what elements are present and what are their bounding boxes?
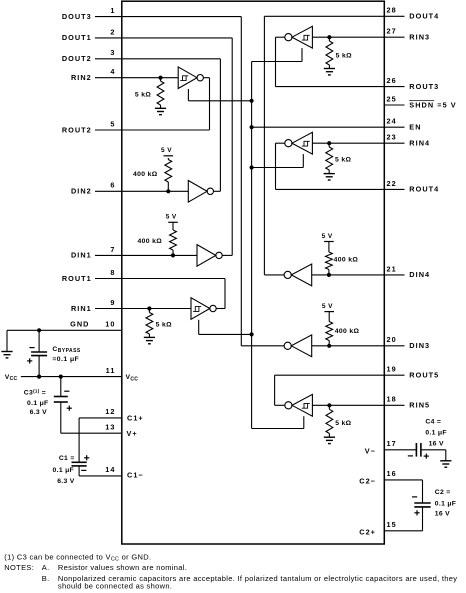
junction GND/Cbypass — [37, 328, 41, 332]
svg-text:SHDN =5 V: SHDN =5 V — [409, 100, 456, 109]
pin 3 DOUT2 — [62, 48, 221, 63]
junction RIN2/5k — [158, 76, 162, 80]
svg-text:DOUT2: DOUT2 — [62, 54, 92, 63]
wire RIN5 enable — [252, 416, 304, 428]
pin 2 DOUT1 — [62, 27, 232, 42]
pin 4 RIN2 — [71, 67, 178, 82]
junction RIN1/5k — [147, 306, 151, 310]
wire DOUT1 bus — [222, 38, 232, 256]
svg-text:0.1 μF: 0.1 μF — [435, 500, 456, 507]
svg-text:28: 28 — [387, 6, 397, 15]
pin 11 VCC — [5, 366, 139, 383]
svg-text:ROUT1: ROUT1 — [62, 274, 92, 283]
op-amp DIN2 driver (inverter) — [188, 181, 207, 203]
wire GND down — [6, 330, 8, 351]
svg-text:DOUT1: DOUT1 — [62, 33, 92, 42]
svg-text:9: 9 — [110, 298, 115, 307]
svg-text:25: 25 — [387, 94, 397, 103]
svg-text:RIN2: RIN2 — [71, 73, 92, 82]
pin 24 EN — [252, 117, 422, 132]
capacitor C4 — [416, 443, 445, 461]
svg-text:Resistor values shown are nomi: Resistor values shown are nominal. — [58, 563, 187, 572]
svg-text:B.: B. — [42, 574, 50, 583]
wire EN bus — [251, 62, 253, 429]
svg-text:=0.1 μF: =0.1 μF — [52, 356, 79, 363]
svg-text:(1) C3 can be connected to VCC: (1) C3 can be connected to VCC or GND. — [4, 553, 151, 563]
junction RIN5/5k — [327, 403, 331, 407]
svg-text:5 V: 5 V — [322, 233, 333, 240]
pin 21 DIN4 — [312, 264, 430, 279]
junction EN/RIN1 — [250, 332, 254, 336]
wire RIN1 enable — [199, 320, 252, 335]
svg-text:C1−: C1− — [127, 470, 144, 479]
svg-text:22: 22 — [387, 179, 397, 188]
svg-text:23: 23 — [387, 133, 397, 142]
svg-text:5 kΩ: 5 kΩ — [135, 92, 151, 99]
svg-text:16: 16 — [387, 469, 397, 478]
capacitor C1 — [72, 418, 87, 476]
svg-text:V+: V+ — [127, 429, 138, 438]
wire ROUT2 loop — [203, 78, 209, 130]
minus C3 — [64, 390, 69, 392]
svg-text:400 kΩ: 400 kΩ — [335, 328, 360, 335]
svg-text:C2+: C2+ — [359, 527, 376, 536]
svg-text:8: 8 — [110, 268, 115, 277]
junction EN/pin24 — [250, 125, 254, 129]
pin 6 DIN2 — [71, 181, 188, 196]
pin 20 DIN3 — [312, 335, 430, 350]
resistor R 5k (RIN4) — [326, 143, 333, 173]
note B — [42, 574, 458, 583]
pin 14 C1- — [79, 465, 144, 479]
resistor R 400k (DIN1) — [170, 222, 177, 255]
junction Vcc/Cbypass — [37, 375, 41, 379]
label C2 — [435, 489, 456, 518]
svg-text:400 kΩ: 400 kΩ — [133, 171, 158, 178]
svg-text:27: 27 — [387, 27, 397, 36]
svg-text:C2 =: C2 = — [435, 489, 451, 496]
svg-text:0.1 μF: 0.1 μF — [425, 430, 446, 437]
pin 19 ROUT5 — [275, 365, 440, 380]
wire DOUT2 bus — [214, 59, 221, 192]
pin 22 ROUT4 — [276, 179, 440, 194]
svg-text:GND: GND — [70, 320, 89, 329]
minus C2 — [412, 496, 417, 498]
wire RIN4 enable — [252, 154, 304, 167]
svg-text:ROUT2: ROUT2 — [62, 125, 92, 134]
op-amp RIN2 receiver (schmitt inverter) — [178, 67, 197, 89]
svg-text:DOUT3: DOUT3 — [62, 12, 92, 21]
svg-text:C1+: C1+ — [127, 414, 144, 423]
svg-text:24: 24 — [387, 117, 397, 126]
capacitor Cbypass — [31, 330, 47, 376]
svg-text:DOUT4: DOUT4 — [409, 12, 439, 21]
svg-text:ROUT5: ROUT5 — [409, 371, 439, 380]
pin 28 DOUT4 — [264, 6, 439, 21]
junction DIN2/400k — [166, 189, 170, 193]
svg-text:12: 12 — [105, 407, 115, 416]
minus Cbypass — [29, 347, 34, 349]
pin 10 GND — [7, 320, 122, 331]
svg-text:V−: V− — [365, 446, 376, 455]
junction DIN4/400k — [327, 273, 331, 277]
svg-text:5 V: 5 V — [322, 303, 333, 310]
op-amp DIN4 driver (inverter) — [291, 264, 311, 286]
svg-text:5 kΩ: 5 kΩ — [156, 321, 172, 328]
svg-text:15: 15 — [387, 520, 397, 529]
pin 17 V- — [365, 439, 417, 455]
capacitor C2 — [414, 480, 430, 531]
wire ROUT1 loop — [216, 279, 225, 309]
junction Vcc/C3 — [59, 375, 63, 379]
svg-text:ROUT3: ROUT3 — [409, 82, 439, 91]
pin 8 ROUT1 — [62, 268, 225, 283]
junction RIN4/5k — [327, 141, 331, 145]
ground RIN5 5k — [324, 436, 335, 438]
svg-text:ROUT4: ROUT4 — [409, 185, 439, 194]
svg-text:DIN3: DIN3 — [409, 341, 430, 350]
wire ROUT3 loop — [276, 37, 285, 86]
svg-text:VCC: VCC — [126, 374, 139, 382]
svg-text:2: 2 — [110, 27, 115, 36]
svg-text:5 V: 5 V — [166, 214, 177, 221]
svg-text:5 kΩ: 5 kΩ — [336, 52, 352, 59]
plus Cbypass — [27, 360, 32, 362]
svg-text:6.3 V: 6.3 V — [30, 409, 48, 416]
label C4 — [425, 418, 446, 447]
svg-text:RIN1: RIN1 — [71, 304, 92, 313]
op-amp RIN5 receiver (schmitt inverter) — [292, 394, 312, 416]
svg-text:5: 5 — [110, 119, 115, 128]
plus C4 — [424, 455, 429, 457]
svg-text:20: 20 — [387, 335, 397, 344]
svg-text:18: 18 — [387, 395, 397, 404]
capacitor C3 — [54, 377, 68, 434]
pin 18 RIN5 — [312, 395, 430, 410]
wire ROUT5 loop — [275, 375, 285, 405]
junction DIN3/400k — [327, 344, 331, 348]
ground RIN4 5k — [324, 173, 335, 175]
svg-text:A.: A. — [42, 563, 50, 572]
resistor R 5k (RIN1) — [146, 309, 153, 338]
svg-text:RIN4: RIN4 — [409, 139, 430, 148]
op-amp DIN3 driver (inverter) — [291, 335, 311, 357]
ground (supply) — [1, 351, 12, 353]
svg-text:3: 3 — [110, 48, 115, 57]
svg-text:CBYPASS: CBYPASS — [52, 346, 80, 354]
svg-text:0.1 μF: 0.1 μF — [53, 467, 74, 474]
svg-text:DIN1: DIN1 — [71, 251, 92, 260]
pin 16 C2- — [359, 469, 422, 485]
resistor R 400k (DIN3) — [326, 312, 333, 346]
plus C2 — [414, 512, 419, 514]
pin 13 V+ — [61, 423, 138, 439]
junction EN/RIN4 — [250, 165, 254, 169]
resistor R 5k (RIN2) — [157, 78, 164, 109]
junction RIN3/5k — [327, 35, 331, 39]
svg-text:DIN2: DIN2 — [71, 187, 92, 196]
svg-text:C4 =: C4 = — [425, 418, 441, 425]
svg-text:DIN4: DIN4 — [409, 270, 430, 279]
svg-text:21: 21 — [387, 264, 397, 273]
minus C4 — [408, 455, 413, 457]
ground RIN1 5k — [144, 336, 155, 338]
label Cbypass — [52, 346, 80, 363]
svg-text:RIN3: RIN3 — [409, 33, 430, 42]
resistor R 400k (DIN2) — [165, 158, 172, 191]
IC body U1 (28-pin transceiver) — [122, 1, 385, 544]
note A — [4, 563, 187, 572]
svg-text:should be connected as shown.: should be connected as shown. — [58, 581, 172, 590]
svg-text:4: 4 — [110, 67, 115, 76]
svg-text:5 V: 5 V — [161, 147, 172, 154]
junction EN/RIN2 — [250, 99, 254, 103]
plus C1 — [84, 457, 89, 459]
ground RIN2 5k — [155, 107, 166, 109]
pin 5 ROUT2 — [62, 119, 210, 134]
pin 27 RIN3 — [312, 27, 430, 42]
ground RIN3 5k — [324, 68, 335, 70]
label C1 — [53, 455, 75, 485]
pin 12 C1+ — [79, 407, 144, 422]
svg-text:1: 1 — [110, 6, 115, 15]
pin 9 RIN1 — [71, 298, 191, 313]
op-amp RIN3 receiver (schmitt inverter) — [292, 26, 312, 48]
svg-text:C2−: C2− — [359, 476, 376, 485]
svg-text:7: 7 — [110, 245, 115, 254]
op-amp DIN1 driver (inverter) — [197, 245, 216, 267]
svg-text:5 kΩ: 5 kΩ — [335, 420, 351, 427]
op-amp RIN4 receiver (schmitt inverter) — [292, 132, 312, 154]
svg-text:13: 13 — [105, 423, 115, 432]
svg-text:400 kΩ: 400 kΩ — [137, 238, 162, 245]
pin 1 DOUT3 — [62, 6, 241, 21]
svg-text:26: 26 — [387, 76, 397, 85]
plus C3 — [67, 407, 72, 409]
resistor R 5k (RIN3) — [326, 37, 333, 68]
svg-text:6: 6 — [110, 181, 115, 190]
wire ROUT4 loop — [276, 143, 285, 189]
svg-text:11: 11 — [106, 366, 116, 375]
resistor R 400k (DIN4) — [326, 242, 333, 275]
pin 26 ROUT3 — [276, 76, 440, 91]
wire RIN2 enable — [188, 89, 251, 101]
pin 23 RIN4 — [312, 133, 430, 148]
svg-text:0.1 μF: 0.1 μF — [27, 400, 48, 407]
wire RIN3 enable — [252, 48, 302, 61]
svg-text:5 kΩ: 5 kΩ — [335, 156, 351, 163]
svg-text:EN: EN — [409, 123, 421, 132]
label C3 — [24, 389, 49, 416]
svg-text:C1 =: C1 = — [59, 455, 75, 462]
pin 25 SHDN — [384, 94, 456, 109]
svg-text:NOTES:: NOTES: — [4, 563, 34, 572]
svg-text:RIN5: RIN5 — [409, 401, 430, 410]
minus C1 — [81, 469, 86, 471]
wire DOUT3 bus — [241, 17, 284, 346]
svg-text:16 V: 16 V — [435, 511, 450, 518]
svg-text:19: 19 — [387, 365, 397, 374]
svg-text:10: 10 — [105, 320, 115, 329]
svg-text:6.3 V: 6.3 V — [57, 478, 75, 485]
svg-text:16 V: 16 V — [429, 440, 444, 447]
ground C4 — [440, 460, 451, 462]
svg-text:17: 17 — [387, 439, 397, 448]
svg-text:14: 14 — [105, 465, 115, 474]
svg-text:VCC: VCC — [5, 374, 18, 382]
resistor R 5k (RIN5) — [326, 405, 333, 437]
junction DIN1/400k — [171, 253, 175, 257]
svg-text:400 kΩ: 400 kΩ — [334, 256, 359, 263]
wire DOUT4 bus — [264, 16, 284, 275]
op-amp RIN1 receiver (schmitt inverter) — [191, 298, 210, 320]
pin 7 DIN1 — [71, 245, 197, 260]
pin 15 C2+ — [359, 520, 422, 536]
